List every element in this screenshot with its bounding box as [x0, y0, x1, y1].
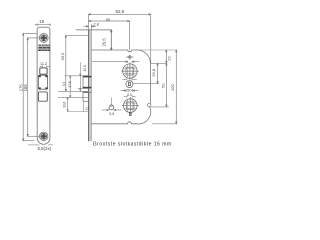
- cylinder hole: [124, 99, 138, 113]
- dimension 100: [176, 50, 177, 124]
- faceplate strip (side): [88, 30, 91, 142]
- dimension 26,8: [157, 63, 158, 83]
- svg-text:55: 55: [106, 17, 111, 22]
- svg-text:10,6: 10,6: [62, 101, 66, 107]
- dimension 8,5 (cylinder): [124, 96, 136, 98]
- svg-text:165: 165: [23, 84, 28, 92]
- svg-text:5,5: 5,5: [109, 112, 114, 116]
- svg-text:18: 18: [39, 19, 44, 24]
- center mark below top notch: [126, 55, 133, 60]
- small hole below follower: [126, 81, 133, 88]
- lock case outline: [92, 50, 151, 103]
- brand stamp rows: [38, 45, 50, 47]
- dimension 17,6: [70, 76, 71, 98]
- small hole (5,5) with stem: [110, 97, 112, 105]
- main latchbolt opening: [38, 75, 47, 89]
- right side ext lines: [137, 50, 177, 124]
- dimension 11,5 (latch height): [80, 63, 81, 93]
- latch bolt (side protrusion): [83, 76, 88, 89]
- svg-text:5,5(2x): 5,5(2x): [37, 146, 51, 151]
- deadbolt opening: [38, 92, 47, 101]
- svg-text:26,5: 26,5: [102, 38, 107, 47]
- svg-text:50: 50: [127, 88, 132, 93]
- screw top: [39, 34, 48, 43]
- dimension 2,8 (faceplate thickness): [84, 24, 96, 30]
- dimension 10,6 (bolt extension): [67, 97, 68, 111]
- svg-text:60,5: 60,5: [60, 52, 65, 61]
- ext line from small hole to right dims: [133, 83, 159, 85]
- dimension 22: [166, 50, 167, 63]
- dimension 13 bracket (bolt throw): [68, 102, 90, 111]
- ext lines left of case: [58, 76, 88, 98]
- svg-text:82,8: 82,8: [116, 9, 125, 14]
- dimension 82,8 (total depth): [89, 14, 151, 64]
- svg-text:3,9: 3,9: [62, 82, 66, 87]
- dimension 5,5(2x) screw holes: [28, 144, 53, 146]
- deadbolt (side protrusion): [83, 92, 88, 101]
- svg-text:50: 50: [160, 83, 165, 88]
- dimension 60,5: [65, 35, 88, 91]
- cylinder slot: [129, 113, 131, 116]
- svg-text:17,6: 17,6: [68, 81, 72, 87]
- svg-text:26,8: 26,8: [151, 68, 156, 77]
- case bottom-right arc and bottom edge: [92, 107, 151, 124]
- svg-text:2,8: 2,8: [94, 23, 99, 27]
- follower (spindle hub): [123, 64, 137, 78]
- hook circle at case edge: [148, 103, 151, 106]
- dimension 18 (faceplate width): [35, 23, 51, 26]
- screw bottom: [40, 132, 48, 140]
- dimension 26,5 (top margin): [76, 30, 112, 50]
- svg-text:22: 22: [167, 56, 172, 61]
- svg-text:13: 13: [85, 107, 89, 111]
- dimension 8 (follower square): [92, 61, 140, 63]
- dimension 50 (right): [166, 63, 167, 107]
- svg-text:100: 100: [170, 83, 175, 90]
- latch slot opening: [40, 68, 47, 74]
- dimension 55 (case depth): [89, 20, 130, 50]
- svg-text:11,5: 11,5: [83, 65, 87, 72]
- dimension (small) under follower: [122, 79, 137, 81]
- left dimension 175 (faceplate length): [23, 33, 38, 140]
- left dimension 165 (screw distance): [27, 38, 39, 136]
- faceplate outline: [37, 27, 50, 144]
- svg-text:8,5: 8,5: [127, 93, 132, 97]
- svg-text:Grootste slotkastdikte 16 mm: Grootste slotkastdikte 16 mm: [93, 142, 172, 148]
- dimension 50 (backset): [121, 89, 139, 92]
- svg-text:11,2: 11,2: [40, 62, 47, 66]
